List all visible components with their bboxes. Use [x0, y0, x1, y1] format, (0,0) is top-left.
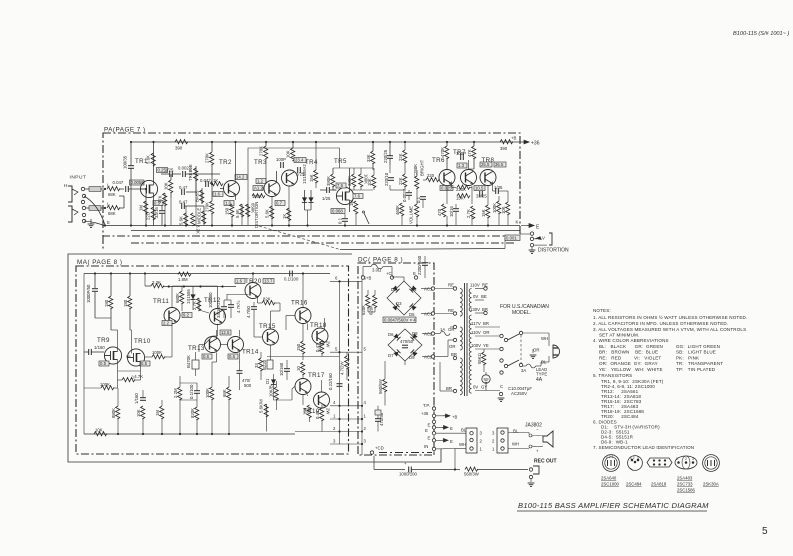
svg-text:YE: YE	[483, 343, 489, 348]
svg-text:390: 390	[500, 146, 508, 151]
svg-text:47K: 47K	[158, 195, 163, 203]
jumper row 1	[330, 418, 362, 420]
svg-text:IN: IN	[424, 444, 428, 449]
T.P. terminal	[432, 407, 435, 410]
transistor TR9 (FET)	[104, 347, 121, 364]
svg-text:470: 470	[437, 208, 442, 216]
DC terminal column vertical	[433, 400, 435, 455]
svg-text:0.6: 0.6	[229, 354, 236, 359]
svg-text:1/160: 1/160	[94, 345, 105, 350]
svg-text:10: 10	[296, 366, 301, 371]
220K	[457, 185, 470, 189]
svg-text:0.047: 0.047	[113, 180, 124, 185]
svg-text:TR9: TR9	[97, 337, 110, 344]
fuse 1A	[440, 332, 450, 336]
560/3W resistor	[465, 467, 478, 471]
svg-text:180: 180	[123, 299, 128, 307]
svg-text:DISTORTION: DISTORTION	[254, 202, 259, 228]
svg-text:4: 4	[364, 400, 367, 405]
svg-text:YE: YELLOW WH: WHITE: YE: YELLOW WH: WHITE	[599, 367, 663, 372]
plain terminal	[432, 420, 435, 423]
svg-text:2. ALL CAPACITORS IN MFD. UNLE: 2. ALL CAPACITORS IN MFD. UNLESS OTHERWI…	[593, 321, 728, 326]
svg-text:BR: BR	[446, 386, 452, 391]
svg-text:620K: 620K	[369, 305, 374, 315]
svg-text:3A: 3A	[521, 368, 526, 373]
TR5 source/drain wires	[349, 168, 351, 192]
TR1 source resistor 22D	[153, 193, 155, 226]
MA top bus	[84, 273, 330, 275]
svg-text:B220: B220	[262, 359, 267, 370]
1K below TR4	[287, 208, 291, 221]
svg-text:2W: 2W	[326, 341, 331, 348]
transistor TR13	[205, 337, 221, 353]
1K series	[210, 182, 223, 186]
svg-text:33/25: 33/25	[476, 194, 487, 199]
capacitor 100/35 rail	[130, 142, 132, 166]
100K	[210, 387, 214, 400]
15K resistor TR4	[314, 170, 318, 183]
svg-text:B100-115 (S/# 1001~ ): B100-115 (S/# 1001~ )	[733, 31, 789, 37]
wire jack terminals to E node	[84, 196, 105, 225]
svg-text:150: 150	[296, 343, 301, 351]
svg-text:9.2: 9.2	[183, 313, 190, 318]
svg-text:E: E	[413, 271, 416, 276]
svg-text:2: 2	[364, 426, 367, 431]
jack switch arrow	[534, 236, 542, 239]
PA circuit	[105, 136, 540, 250]
DC board circuit	[361, 255, 458, 455]
svg-text:TREBLE: TREBLE	[188, 164, 193, 181]
bridge rectifier D2-D5	[387, 281, 421, 317]
wires right part	[267, 353, 340, 432]
130/100 cap	[230, 300, 232, 304]
svg-text:3: 3	[333, 438, 336, 443]
svg-text:K: K	[516, 220, 519, 225]
coupling cap 1/25 TR4 out	[298, 167, 301, 173]
svg-text:15K: 15K	[456, 196, 464, 201]
0.1 cap near volume	[420, 197, 426, 200]
svg-text:25.5: 25.5	[481, 162, 490, 167]
68K resistor at I1	[107, 187, 120, 191]
svg-text:0.6: 0.6	[203, 354, 210, 359]
svg-text:MODEL.: MODEL.	[512, 310, 531, 316]
15K	[457, 194, 470, 198]
svg-text:+B: +B	[366, 276, 372, 281]
boxed 0.0047/560V x 4	[383, 317, 416, 323]
22K top	[403, 150, 407, 163]
resistor 390 in top bus right	[500, 140, 513, 144]
+B top bus	[131, 141, 521, 143]
transistor TR8	[480, 170, 496, 186]
svg-text:0V: 0V	[473, 294, 478, 299]
svg-text:4.7/2W: 4.7/2W	[340, 360, 345, 375]
ground at OR	[530, 355, 537, 358]
svg-text:TYPE: TYPE	[536, 372, 547, 377]
svg-text:470K: 470K	[440, 147, 445, 157]
svg-text:3: 3	[480, 431, 483, 436]
svg-text:680K: 680K	[175, 293, 180, 303]
svg-text:100P: 100P	[456, 151, 466, 156]
svg-text:0.1/100: 0.1/100	[284, 277, 299, 282]
svg-text:2SC1000: 2SC1000	[601, 482, 620, 487]
DC internal wires	[368, 277, 405, 365]
svg-text:TR2: TR2	[219, 159, 232, 166]
power switch pole 1	[504, 338, 507, 341]
svg-text:10K: 10K	[501, 206, 506, 214]
svg-text:100K: 100K	[252, 194, 262, 199]
33/25 cap	[480, 191, 483, 197]
E terminal with arrow a	[432, 426, 435, 429]
svg-text:TR13: TR13	[188, 345, 205, 352]
svg-text:0.47: 0.47	[179, 185, 188, 190]
resistor 390 in top bus left	[175, 140, 188, 144]
svg-text:2: 2	[480, 439, 483, 444]
svg-text:10K: 10K	[367, 178, 372, 186]
680K	[180, 291, 184, 304]
jack ground	[531, 247, 533, 250]
68K	[227, 387, 231, 400]
boxed callouts TR3	[256, 179, 266, 184]
tone wires	[196, 173, 220, 175]
svg-text:3: 3	[637, 456, 639, 460]
transistor TR12	[210, 309, 226, 325]
svg-text:180: 180	[104, 299, 109, 307]
input jack J1	[68, 186, 86, 204]
svg-text:5: 5	[364, 347, 367, 352]
svg-text:NOTES:: NOTES:	[593, 308, 611, 313]
svg-text:GG: LIGHT GREEN: GG: LIGHT GREEN	[676, 344, 720, 349]
power transformer T1	[435, 283, 550, 397]
svg-text:BR: BR	[483, 321, 489, 326]
svg-text:0.22/160: 0.22/160	[328, 373, 333, 390]
jumper row 6	[330, 280, 362, 282]
svg-text:100K: 100K	[205, 388, 210, 398]
svg-text:1.3: 1.3	[458, 163, 465, 168]
svg-text:3: 3	[492, 431, 495, 436]
svg-text:BR: BR	[451, 352, 457, 357]
svg-text:2SA818: 2SA818	[651, 482, 667, 487]
transistor TR10 (FET)	[127, 349, 144, 366]
svg-text:5.6K: 5.6K	[179, 216, 184, 225]
BASS pot	[201, 188, 203, 204]
svg-text:BRIGHT: BRIGHT	[420, 159, 425, 176]
180 resistor b	[128, 296, 132, 309]
svg-text:TR3: TR3	[254, 159, 267, 166]
svg-text:270K: 270K	[205, 202, 210, 212]
svg-text:D9: D9	[409, 355, 415, 360]
AC plug	[553, 345, 560, 358]
svg-text:E: E	[536, 225, 540, 231]
270K bias lower	[210, 201, 214, 214]
terminal +C	[390, 276, 393, 279]
150 emitter resistor	[235, 195, 237, 200]
10K resistor mid	[169, 180, 173, 193]
interconnect verticals MA to DC	[295, 275, 384, 455]
100K lower left	[101, 386, 114, 390]
wire net TR9/TR10 outputs	[145, 356, 152, 358]
svg-text:1/25: 1/25	[322, 196, 331, 201]
boxed 14.2 callout	[235, 175, 247, 180]
svg-text:TR20: TR20	[245, 278, 262, 285]
wire from strip down	[373, 456, 375, 470]
svg-text:270K: 270K	[205, 153, 210, 163]
svg-text:3.3K: 3.3K	[152, 280, 161, 285]
svg-text:MA( PAGE 8 ): MA( PAGE 8 )	[77, 259, 122, 266]
vertical drops TR3/TR4	[271, 197, 273, 226]
svg-text:RE: RED VI: VIOLET: RE: RED VI: VIOLET	[599, 355, 661, 360]
330K	[352, 174, 356, 187]
svg-text:1: 1	[492, 447, 495, 452]
svg-text:1 2: 1 2	[630, 456, 635, 460]
transistor TR11	[164, 308, 180, 324]
svg-text:470/50: 470/50	[400, 339, 414, 344]
svg-text:BL: BLACK GR: GREEN: BL: BLACK GR: GREEN	[599, 344, 663, 349]
shielded wire jack2 to node I2	[86, 207, 105, 209]
svg-text:2SC733: 2SC733	[677, 482, 693, 487]
svg-text:E: E	[425, 428, 428, 433]
mid verticals to bus	[84, 352, 271, 434]
5.6K tone	[184, 213, 188, 226]
svg-text:33/16: 33/16	[154, 207, 159, 218]
220 resistor to TR6	[426, 178, 439, 182]
svg-text:4. WIRE COLOR ABBREVIATIONS: 4. WIRE COLOR ABBREVIATIONS	[593, 338, 669, 343]
svg-text:15K: 15K	[481, 209, 486, 217]
svg-text:2.7K: 2.7K	[192, 301, 197, 310]
MA side vertical wire	[339, 281, 341, 444]
svg-text:PK: PINK: PK: PINK	[676, 355, 699, 360]
svg-text:OR: ORANGE GY: GRAY: OR: ORANGE GY: GRAY	[599, 361, 658, 366]
jumper row 3	[330, 443, 362, 445]
transistor TR5 (FET)	[336, 187, 353, 204]
svg-text:0.0027: 0.0027	[402, 188, 407, 202]
speaker SP	[543, 431, 553, 447]
svg-text:SET AT MINIMUM.: SET AT MINIMUM.	[599, 333, 639, 338]
svg-text:E: E	[450, 426, 453, 431]
svg-text:D6: D6	[388, 332, 394, 337]
svg-text:A1.2: A1.2	[254, 186, 263, 191]
core lines	[464, 283, 466, 396]
svg-text:INPUT: INPUT	[70, 175, 87, 181]
10K right	[506, 202, 510, 215]
1M resistor to E	[145, 189, 147, 226]
svg-text:BL: BL	[461, 428, 467, 433]
svg-text:100/35: 100/35	[123, 155, 128, 169]
880K	[116, 406, 120, 419]
output terminal strip	[374, 423, 557, 487]
transistor TR15	[263, 329, 279, 345]
svg-text:5.6K: 5.6K	[235, 209, 240, 218]
svg-text:150: 150	[303, 407, 308, 415]
svg-text:1A: 1A	[440, 327, 445, 332]
svg-text:D5: D5	[409, 312, 415, 317]
svg-text:RE: RE	[482, 283, 488, 288]
svg-text:BR: BROWN BE: BLUE: BR: BROWN BE: BLUE	[599, 350, 658, 355]
svg-text:1K: 1K	[282, 214, 287, 219]
node E	[104, 224, 106, 226]
node I2	[104, 207, 106, 209]
150 resistor TR16	[301, 341, 305, 354]
svg-text:10K: 10K	[164, 182, 169, 190]
svg-text:E: E	[428, 435, 431, 440]
svg-text:1M: 1M	[139, 205, 144, 211]
svg-text:1000P/50: 1000P/50	[86, 284, 91, 303]
100P cap	[461, 154, 464, 160]
dashed link to distortion jack	[259, 226, 340, 250]
svg-text:5.6K/W: 5.6K/W	[259, 398, 264, 413]
82K resistor	[262, 301, 275, 305]
svg-text:1. ALL RESISTORS IN OHMS ½ WAT: 1. ALL RESISTORS IN OHMS ½ WATT UNLESS O…	[593, 314, 747, 320]
0.1 cap	[344, 214, 346, 218]
wires to plug	[523, 333, 549, 366]
svg-text:V: V	[542, 236, 545, 241]
svg-text:117V: 117V	[471, 321, 481, 326]
100K resistor TR3 base	[252, 194, 265, 198]
svg-text:JA3802: JA3802	[525, 423, 542, 429]
PA board dashed border	[103, 133, 520, 250]
svg-text:22D: 22D	[146, 212, 151, 220]
svg-text:C: C	[500, 384, 503, 389]
svg-text:4.7K½: 4.7K½	[236, 300, 241, 313]
TR2 collector wire	[235, 142, 237, 182]
terminal E	[414, 276, 417, 279]
svg-text:0.001: 0.001	[506, 236, 517, 241]
svg-text:6: 6	[335, 276, 338, 281]
svg-text:MIDDLE: MIDDLE	[197, 208, 202, 224]
svg-text:RE: RE	[448, 308, 454, 313]
icon flat package	[647, 458, 672, 467]
svg-text:4A: 4A	[536, 377, 543, 383]
svg-text:1M: 1M	[349, 200, 354, 206]
svg-text:3. ALL VOLTAGES MEASURED WITH: 3. ALL VOLTAGES MEASURED WITH A VTVM, WI…	[593, 327, 746, 332]
svg-text:1 2 3: 1 2 3	[606, 455, 613, 459]
svg-text:+CD: +CD	[375, 446, 384, 451]
IN terminal	[432, 447, 435, 450]
svg-text:PA(PAGE 7 ): PA(PAGE 7 )	[104, 127, 146, 134]
E bus junction dots	[130, 224, 132, 226]
boxed 23.4	[294, 158, 306, 163]
svg-text:130V: 130V	[470, 307, 480, 312]
fuse 3.0 ohm	[363, 266, 371, 268]
svg-text:460K: 460K	[395, 205, 400, 215]
wire I1 to C1	[119, 188, 124, 190]
svg-text:DC( PAGE 8 ): DC( PAGE 8 )	[358, 257, 403, 264]
0.47 2W b	[320, 408, 324, 421]
svg-text:2W: 2W	[326, 408, 331, 415]
10K	[372, 175, 376, 188]
jumper row 5	[330, 351, 362, 353]
svg-text:TR5: TR5	[334, 158, 347, 165]
distortion jack contacts	[530, 232, 533, 235]
1/160 input cap	[89, 349, 92, 355]
primary winding loops	[460, 289, 462, 317]
svg-text:2SA640: 2SA640	[601, 476, 617, 481]
capacitor 0.001 boxed	[505, 235, 520, 241]
svg-text:TR17: TR17	[308, 372, 325, 379]
8.2K tone	[191, 213, 195, 226]
cap 0.47 lower	[182, 203, 185, 209]
tone stack: cap 0.0022	[183, 171, 186, 177]
svg-text:10K/B: 10K/B	[269, 385, 274, 397]
mains switch and plug	[490, 331, 560, 401]
0.0027 cap	[406, 193, 412, 196]
svg-text:82K: 82K	[263, 297, 271, 302]
svg-text:5.6K: 5.6K	[146, 155, 151, 164]
boxed callouts TR6-8	[457, 163, 467, 168]
svg-text:100K: 100K	[492, 203, 497, 213]
right side taps	[475, 287, 503, 391]
svg-text:68K: 68K	[108, 211, 116, 216]
svg-text:220: 220	[427, 173, 435, 178]
svg-text:47K: 47K	[467, 149, 472, 157]
svg-text:3.0Ω: 3.0Ω	[372, 268, 382, 273]
svg-text:0.025: 0.025	[441, 186, 452, 191]
svg-text:10/16: 10/16	[449, 206, 454, 217]
svg-text:T.P.: T.P.	[423, 403, 430, 408]
svg-text:13.7: 13.7	[264, 279, 273, 284]
svg-text:4.7/50: 4.7/50	[246, 305, 251, 318]
jumper row 4	[330, 405, 362, 407]
svg-text:1/25: 1/25	[165, 168, 174, 173]
E terminal with arrow c	[432, 439, 435, 442]
svg-text:NF: NF	[126, 355, 131, 359]
svg-text:D7: D7	[388, 353, 394, 358]
svg-text:1: 1	[333, 413, 336, 418]
svg-text:2SC484: 2SC484	[626, 482, 642, 487]
PA vertical wires grid	[161, 142, 508, 226]
svg-text:33/16×2: 33/16×2	[216, 302, 221, 318]
jumper row 2	[295, 431, 362, 433]
svg-text:D8: D8	[412, 331, 418, 336]
coupling cap 1/25 to TR5	[327, 187, 330, 193]
svg-text:220/10: 220/10	[384, 172, 389, 186]
svg-text:+36: +36	[421, 411, 429, 416]
boxed 0.0056 callout	[130, 180, 145, 185]
bottom wire with 1000/100 cap	[374, 469, 405, 471]
svg-text:WH: WH	[541, 336, 548, 341]
transistor TR17	[295, 379, 311, 395]
node I1	[104, 188, 106, 190]
wire net TR5 gate/drain	[333, 189, 336, 191]
svg-text:TR6: TR6	[432, 157, 445, 164]
svg-text:+36: +36	[531, 141, 540, 147]
svg-text:68K: 68K	[108, 192, 116, 197]
bright switch	[364, 213, 369, 224]
820K	[195, 407, 199, 420]
svg-text:36.5: 36.5	[495, 162, 504, 167]
220/10 cap	[388, 178, 394, 181]
wires transformer to AC terminals	[435, 289, 454, 392]
1.8M resistor	[178, 272, 191, 276]
icon TO-92 b	[628, 456, 643, 471]
460K	[400, 203, 404, 216]
svg-text:270K: 270K	[259, 146, 264, 156]
TR3 collector to TR4 base wire	[276, 171, 278, 183]
3.3K resistor	[151, 284, 164, 288]
svg-text:14.2: 14.2	[236, 175, 245, 180]
270K TR3 top	[264, 146, 268, 159]
svg-text:D6-9: WB-1: D6-9: WB-1	[601, 440, 628, 445]
transistor TR14	[228, 337, 244, 353]
lead labels	[601, 476, 719, 493]
620K resistors x2	[366, 295, 370, 308]
svg-text:22K: 22K	[398, 153, 403, 161]
boxed 7.6 x2	[336, 183, 346, 188]
TR1 drain to bus	[153, 142, 155, 185]
wire net volume/bright	[416, 170, 418, 176]
svg-text:0.47: 0.47	[179, 200, 188, 205]
svg-text:10K: 10K	[95, 428, 103, 433]
wire net TR6-TR8	[446, 168, 448, 171]
